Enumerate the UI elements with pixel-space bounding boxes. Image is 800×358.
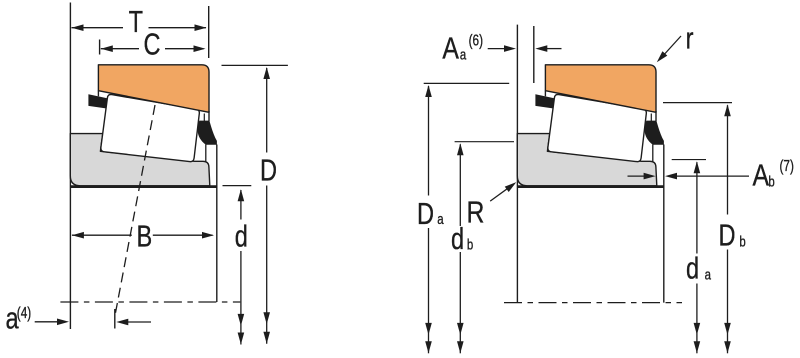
bore bottom line bbox=[517, 185, 664, 188]
svg-text:b: b bbox=[467, 236, 473, 253]
label T bbox=[129, 4, 144, 39]
load center tick bbox=[114, 309, 116, 329]
dimension D bbox=[222, 64, 288, 66]
label a(4) bbox=[5, 300, 19, 335]
label r + arrow bbox=[686, 20, 694, 55]
cone back face line (down to axis) bbox=[663, 145, 665, 303]
label B bbox=[136, 218, 152, 253]
svg-text:(7): (7) bbox=[780, 157, 794, 174]
cup right edge continuation bbox=[655, 111, 657, 121]
svg-text:r: r bbox=[686, 20, 694, 55]
notch line bbox=[652, 145, 654, 162]
label D bbox=[260, 152, 277, 187]
cage left bbox=[535, 94, 554, 108]
svg-text:C: C bbox=[143, 26, 160, 61]
cone front face line bbox=[516, 25, 518, 303]
right extension line (T/C) bbox=[208, 6, 210, 58]
r arrow bbox=[654, 36, 681, 65]
cup (outer ring, orange) bbox=[98, 65, 209, 113]
svg-text:R: R bbox=[467, 195, 485, 229]
label d bbox=[235, 218, 248, 253]
cone back face line (B extension) bbox=[216, 145, 218, 303]
dimension a(4) bbox=[35, 319, 151, 326]
label db bbox=[451, 221, 464, 256]
roller bbox=[548, 94, 647, 161]
svg-text:a: a bbox=[460, 46, 467, 63]
svg-text:T: T bbox=[129, 4, 144, 39]
bearing (translated +447) bbox=[517, 65, 664, 187]
C left extension tick bbox=[99, 40, 101, 55]
dimension A_b bbox=[628, 173, 750, 180]
dimension d bbox=[223, 185, 252, 187]
axis centerline right bbox=[504, 302, 682, 304]
cup front face lower line bbox=[97, 91, 99, 97]
axis centerline bbox=[60, 301, 240, 303]
label Da bbox=[417, 196, 434, 231]
label C bbox=[143, 26, 160, 61]
svg-text:B: B bbox=[136, 218, 152, 253]
label Aa(6) bbox=[442, 31, 459, 65]
svg-text:D: D bbox=[260, 152, 277, 187]
svg-text:b: b bbox=[768, 173, 774, 190]
cone (inner ring, gray) bbox=[70, 134, 210, 186]
label Ab(7) bbox=[753, 158, 770, 192]
svg-text:b: b bbox=[739, 233, 745, 250]
cup front face lower line bbox=[544, 91, 546, 97]
svg-text:d: d bbox=[235, 218, 248, 253]
svg-text:(6): (6) bbox=[469, 32, 483, 49]
label da bbox=[686, 250, 699, 285]
cage front extension line bbox=[533, 26, 535, 83]
left extension / cone front face line bbox=[69, 3, 71, 330]
cup back chamfer line bbox=[203, 114, 205, 122]
dimension d_a bbox=[672, 159, 706, 161]
roller dashed centerline bbox=[115, 105, 156, 318]
svg-text:D: D bbox=[417, 196, 434, 231]
svg-text:d: d bbox=[451, 221, 464, 256]
dimension d_b bbox=[455, 141, 514, 143]
svg-text:d: d bbox=[686, 250, 699, 285]
cone gray bbox=[517, 134, 657, 186]
cup back chamfer line bbox=[650, 114, 652, 122]
cage right bbox=[645, 121, 664, 145]
svg-text:A: A bbox=[753, 158, 770, 192]
dimension D_a bbox=[424, 82, 510, 84]
dimension T bbox=[72, 24, 207, 31]
roller (white) bbox=[101, 94, 200, 161]
label R + arrow bbox=[467, 195, 485, 229]
dimension D_b bbox=[663, 102, 732, 104]
bore bottom line bbox=[70, 185, 217, 188]
label Db bbox=[718, 217, 735, 252]
svg-text:(4): (4) bbox=[17, 304, 31, 321]
back face notch line inner bbox=[205, 145, 207, 162]
cage piece left (black) bbox=[88, 94, 107, 108]
cup right edge continuation bbox=[208, 111, 210, 121]
svg-text:A: A bbox=[442, 31, 459, 65]
svg-text:a: a bbox=[705, 266, 712, 283]
dimension A_a bbox=[488, 45, 562, 52]
cup orange bbox=[545, 65, 656, 113]
svg-text:D: D bbox=[718, 217, 735, 252]
dimension C bbox=[101, 45, 206, 52]
svg-text:a: a bbox=[437, 211, 444, 228]
cage piece right (black) bbox=[198, 121, 217, 145]
dimension B bbox=[72, 232, 214, 239]
